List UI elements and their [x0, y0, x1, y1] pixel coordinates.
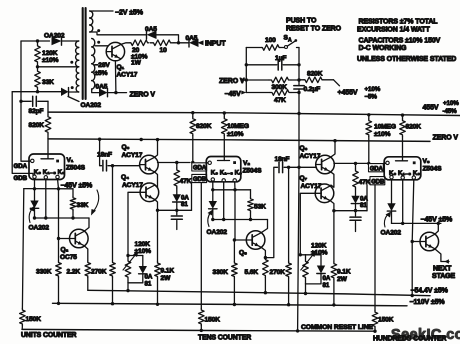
svg-text:150K: 150K — [205, 316, 221, 323]
svg-text:OA202: OA202 — [207, 229, 228, 236]
node K9-h B10 — [411, 294, 414, 297]
transistor Q1 — [106, 42, 124, 60]
wire OA202-u to rail — [34, 208, 36, 218]
pin V2 top — [208, 161, 211, 164]
svg-text:2.2K: 2.2K — [67, 268, 81, 275]
pin V3 dot — [413, 161, 416, 164]
transistor Q5 — [246, 231, 265, 250]
svg-text:270K: 270K — [91, 268, 107, 275]
capacitor 82pF — [21, 100, 31, 102]
node K9 tap — [57, 187, 60, 190]
pin V3 K1-8 — [401, 176, 404, 179]
svg-text:820K: 820K — [406, 124, 422, 131]
wire GDB-h drop — [374, 185, 376, 311]
svg-text:2W: 2W — [161, 275, 172, 282]
svg-text:5.6K: 5.6K — [245, 269, 259, 276]
svg-text:GDA: GDA — [14, 163, 28, 170]
diode 0A5 D4 input — [189, 39, 199, 47]
wire V2 K1-8 drop — [223, 182, 225, 220]
capacitor stub hundreds — [355, 211, 357, 216]
svg-text:Q₅: Q₅ — [239, 249, 247, 256]
resistor 20 1W — [130, 40, 149, 46]
wire 10MEG-h to GDA — [368, 137, 370, 164]
wire Q8 emitter next stage — [435, 249, 449, 262]
svg-text:GDA: GDA — [193, 166, 207, 172]
svg-text:47K: 47K — [359, 179, 371, 186]
svg-text:−54.4V ±5%: −54.4V ±5% — [411, 288, 449, 295]
svg-text:+10%: +10% — [365, 86, 381, 93]
capacitor 0.2uF — [294, 85, 304, 87]
svg-text:150K: 150K — [378, 317, 394, 324]
node top-left corner — [36, 39, 39, 42]
wire OA202 leader — [68, 97, 79, 102]
box GDB hundreds — [370, 177, 385, 185]
wire 270K-t top — [288, 167, 290, 261]
transformer winding upper-left — [76, 41, 79, 48]
resistor 120K-u reset — [125, 256, 131, 283]
svg-text:−45V ±5%: −45V ±5% — [421, 216, 454, 223]
svg-text:ZERO V: ZERO V — [433, 135, 459, 142]
wire Q1 collector — [121, 43, 130, 45]
node zerov Q3 — [156, 138, 159, 141]
node reset-u B10 — [126, 289, 129, 292]
diode 0A5 D5 — [99, 88, 108, 96]
box GDA hundreds — [369, 164, 384, 172]
transistor Q2 — [70, 229, 89, 248]
node reset-t B10 — [304, 292, 307, 295]
pin V3 K9 — [412, 176, 415, 179]
node V2 K0 tap — [211, 188, 214, 191]
resistor 33K units — [72, 189, 74, 197]
transformer phase dot D — [97, 41, 100, 44]
svg-text:820K: 820K — [196, 123, 212, 130]
wire cathode tie tens — [213, 189, 251, 191]
node 1uF left — [245, 63, 248, 66]
wire Q8 collector — [435, 223, 439, 234]
transistor Q8 next stage — [420, 232, 439, 251]
svg-text:RESISTORS ±7% TOTAL: RESISTORS ±7% TOTAL — [359, 19, 439, 26]
diode OA202 hundreds — [387, 203, 395, 211]
node input — [177, 41, 180, 44]
wire reset-u bottom — [128, 282, 143, 284]
svg-text:Q₇: Q₇ — [300, 175, 308, 182]
resistor 820K top — [299, 79, 304, 81]
wire V3 K1-8 drop — [402, 180, 404, 224]
resistor 270K tens — [286, 262, 292, 279]
wire GDA-t — [158, 162, 191, 164]
resistor 10MEG hundreds — [368, 115, 370, 119]
svg-text:ACY17: ACY17 — [122, 182, 143, 189]
wire V2 K9 drop — [235, 182, 246, 240]
wire 150K-u feed — [22, 189, 23, 309]
switch SA — [280, 47, 285, 49]
svg-text:10MEG: 10MEG — [227, 123, 249, 130]
svg-text:81: 81 — [181, 201, 188, 208]
svg-text:COMMON RESET LINE: COMMON RESET LINE — [301, 324, 374, 331]
svg-text:GDA: GDA — [370, 166, 384, 172]
wire 330K-u bottom — [58, 278, 60, 304]
wire reset-t drop — [305, 284, 307, 294]
svg-text:82pF: 82pF — [29, 108, 44, 115]
node 330K-t top — [233, 238, 236, 241]
resistor 10MEG tens — [223, 113, 225, 117]
resistor 33K upper — [35, 67, 41, 92]
svg-text:D-C WORKING: D-C WORKING — [359, 45, 408, 52]
wire -54.4V bus — [88, 290, 430, 295]
node K9-h base — [411, 240, 414, 243]
wire 150K-t to B12 — [200, 326, 202, 331]
node 82pF tap — [19, 100, 22, 103]
node Q1 emitter — [114, 91, 117, 94]
wire Q5 collector — [261, 220, 268, 233]
wire V3 anode bar — [396, 160, 408, 162]
node zerov 141 — [140, 138, 143, 141]
svg-text:18nF: 18nF — [275, 156, 290, 163]
svg-text:−45V: −45V — [225, 91, 242, 98]
node K9-t tap — [233, 188, 236, 191]
capacitor stub units-chain — [176, 210, 178, 215]
svg-text:0A5: 0A5 — [96, 84, 108, 91]
wire Q6-Q7 link — [330, 172, 334, 188]
svg-text:UNITS COUNTER: UNITS COUNTER — [21, 332, 76, 339]
svg-text:ACY17: ACY17 — [300, 153, 321, 160]
wire mid tap — [38, 66, 77, 68]
wire V1 K1-8 drop — [45, 179, 47, 218]
pin V2 K1-8 — [222, 179, 225, 182]
wire 455V bus — [48, 112, 460, 115]
svg-text:NEXT: NEXT — [433, 265, 452, 272]
transformer winding lower-right — [92, 39, 95, 47]
transistor Q4 — [140, 183, 159, 202]
node bus reset — [297, 112, 300, 115]
node zerov Q6 — [333, 139, 336, 142]
svg-text:ZERO V: ZERO V — [219, 78, 245, 85]
svg-text:PUSH TO: PUSH TO — [286, 17, 317, 24]
node 18nF-270K — [111, 164, 114, 167]
wire 150K-h to B12 — [374, 328, 376, 331]
node 150K-t B12 — [200, 329, 203, 332]
svg-text:0A5: 0A5 — [186, 35, 198, 42]
node 150K-h B12 — [373, 330, 376, 333]
tube V1 — [29, 154, 65, 180]
svg-text:330K: 330K — [36, 268, 52, 275]
svg-text:455V: 455V — [423, 105, 439, 112]
pin V2 K9 — [233, 179, 236, 182]
transistor Q3 — [140, 155, 159, 174]
svg-text:81: 81 — [360, 202, 367, 209]
box GDA tens — [192, 163, 207, 171]
wire V3 K0 drop — [391, 179, 393, 203]
transformer phase dot C — [97, 29, 100, 32]
wire Q4 emitter — [155, 200, 158, 211]
svg-text:RESET TO ZERO: RESET TO ZERO — [286, 26, 342, 33]
transformer phase dot A — [70, 61, 73, 64]
resistor 47K tens — [176, 163, 178, 169]
wire -2V — [94, 10, 114, 12]
wire 270K-t bottom — [288, 278, 290, 305]
svg-text:33K: 33K — [77, 202, 89, 209]
svg-text:+10%: +10% — [443, 100, 459, 107]
wire V3 K9 drop — [412, 180, 420, 242]
pin V1 top — [31, 159, 34, 162]
svg-text:81: 81 — [323, 282, 330, 289]
node K18-h rail — [401, 222, 404, 225]
box GDB tens — [192, 174, 207, 182]
svg-text:EXCURSION 1/4 WATT: EXCURSION 1/4 WATT — [357, 27, 431, 34]
diode OA81 hundreds — [355, 189, 357, 196]
wire V1 K0 drop — [34, 179, 36, 201]
svg-text:47K: 47K — [180, 178, 192, 185]
pin V1 K9 — [56, 175, 59, 178]
wire 9.1K-u bottom — [157, 278, 159, 304]
svg-text:ACY17: ACY17 — [301, 183, 322, 190]
wire tens mid — [158, 209, 192, 211]
svg-text:−28V: −28V — [95, 62, 111, 69]
diode 0A5 D3 — [147, 31, 157, 39]
svg-text:330K: 330K — [213, 269, 229, 276]
capacitor 1uF — [246, 64, 276, 66]
svg-text:K₀ K₁₋₈ K₉: K₀ K₁₋₈ K₉ — [34, 169, 65, 176]
pin V3 top — [386, 161, 389, 164]
wire upper-right bottom — [90, 32, 147, 35]
wire reset-u arrow — [123, 254, 137, 271]
node 18nF-reset — [297, 166, 300, 169]
svg-text:Z504S: Z504S — [423, 165, 443, 172]
svg-text:−45V ±5%: −45V ±5% — [61, 182, 94, 189]
wire Q4 base drop — [128, 192, 141, 255]
diode OA202 D1 — [52, 37, 62, 45]
transformer winding lower-left — [76, 67, 79, 73]
svg-text:1W: 1W — [131, 60, 142, 67]
wire 820K-h to anode — [402, 137, 404, 161]
node bus 820K-h — [401, 113, 404, 116]
pin V1 dot — [56, 160, 59, 163]
svg-text:2W: 2W — [337, 276, 348, 283]
resistor 9.1K units — [157, 210, 159, 261]
wire V1 K9 drop — [58, 179, 70, 239]
wire -45V-u arrow — [93, 190, 99, 213]
node K18 rail — [44, 216, 47, 219]
svg-text:INPUT: INPUT — [205, 41, 226, 48]
svg-text:±5%: ±5% — [95, 70, 108, 77]
resistor 120K upper — [35, 41, 41, 67]
svg-text:ACY17: ACY17 — [117, 72, 138, 79]
resistor 300K — [246, 79, 269, 81]
capacitor 18nF units — [100, 139, 102, 166]
wire Q5 emitter — [261, 247, 265, 257]
svg-text:Q₁: Q₁ — [117, 64, 125, 71]
svg-text:0A5: 0A5 — [145, 26, 157, 33]
svg-text:ZERO V: ZERO V — [130, 92, 156, 99]
node 18nF-270Kt — [287, 166, 290, 169]
resistor 820K units — [45, 115, 51, 134]
transistor Q6 — [316, 155, 335, 174]
resistor 820K hundreds — [402, 115, 404, 119]
wire Q1 emitter — [114, 61, 117, 93]
diode OA81 tens — [176, 188, 178, 194]
svg-text:K₀ K₁₋₈ K₉: K₀ K₁₋₈ K₉ — [389, 170, 420, 177]
transformer phase dot B — [71, 86, 74, 89]
node zerov 82pf-chain — [98, 138, 101, 141]
svg-text:Q₂: Q₂ — [61, 247, 69, 254]
wire reset-t arrow — [301, 254, 314, 271]
diode OA81 units — [142, 256, 144, 267]
wire K9-h down — [411, 242, 413, 296]
diode OA202 tens — [209, 201, 217, 209]
wire 150K-u to reset bus — [21, 326, 23, 330]
wire reset vertical down — [298, 89, 299, 331]
wire GDA-h — [334, 162, 367, 164]
svg-text:33K: 33K — [42, 79, 54, 86]
wire reset rail left — [245, 48, 247, 93]
node reset-t top — [299, 253, 302, 256]
node 9.1K-u B11 — [156, 303, 159, 306]
svg-text:−2V ±5%: −2V ±5% — [115, 9, 144, 16]
diode OA202 D2 — [61, 88, 69, 96]
tube V2 — [206, 157, 241, 182]
svg-text:9.1K: 9.1K — [161, 268, 175, 275]
resistor 150K tens — [199, 309, 205, 326]
resistor 9.1K tens — [333, 211, 335, 262]
wire 330K-t top — [233, 240, 235, 262]
wire 9.1K-t bottom — [333, 280, 335, 305]
node Q7 junction — [332, 209, 335, 212]
pin V2 dot — [233, 161, 236, 164]
wire zerov bus — [48, 139, 430, 142]
svg-text:V₃: V₃ — [423, 158, 430, 165]
tube V3 — [384, 157, 421, 180]
svg-text:120K: 120K — [42, 50, 58, 57]
svg-text:V₁: V₁ — [67, 157, 74, 164]
svg-text:53K: 53K — [254, 203, 266, 210]
node Q4 junction — [156, 209, 159, 212]
node GDA-h 47K — [354, 162, 357, 165]
wire Q2 collector — [84, 218, 89, 231]
wire 33K bottom — [12, 91, 61, 93]
svg-text:OA202: OA202 — [381, 229, 402, 236]
transistor Q7 — [315, 184, 334, 203]
wire reset-u drop — [127, 283, 129, 291]
pin V1 K1-8 — [44, 176, 47, 179]
svg-text:300K: 300K — [272, 84, 288, 91]
svg-text:±10%: ±10% — [227, 131, 244, 138]
svg-text:OA202: OA202 — [44, 33, 65, 40]
node 53K bottom — [249, 218, 252, 221]
node K0 tap — [33, 187, 36, 190]
wire input elbow — [157, 35, 179, 43]
wire OA202-h to rail — [391, 211, 393, 223]
node 33K bottom — [36, 90, 39, 93]
svg-text:81: 81 — [145, 280, 152, 287]
node 33K-u bottom — [71, 216, 74, 219]
wire 330K-u top — [58, 239, 60, 262]
wire 2.2K-u bottom — [87, 278, 89, 291]
wire zero-v stub — [108, 92, 127, 94]
wire Q6 collector — [330, 141, 335, 158]
diode OA202 units — [30, 201, 38, 209]
svg-text:-45%: -45% — [443, 108, 458, 115]
svg-text:9.1K: 9.1K — [337, 269, 351, 276]
wire GDA-V1 vertical — [21, 41, 30, 161]
svg-text:10: 10 — [160, 47, 168, 54]
node crl bottom — [296, 329, 299, 332]
wire 5.6K-t bottom — [264, 278, 266, 293]
wire -110V bus — [53, 303, 408, 306]
node 330K-u B11 — [57, 302, 60, 305]
node 1uF right — [297, 63, 300, 66]
pin V2 K0 — [211, 178, 214, 181]
svg-text:UNLESS OTHERWISE STATED: UNLESS OTHERWISE STATED — [357, 56, 456, 63]
svg-text:Q₃: Q₃ — [122, 144, 130, 151]
wire Q7 base drop — [300, 193, 316, 255]
wire Q2 emitter — [84, 246, 88, 261]
node 47K right — [297, 91, 300, 94]
svg-text:CAPACITORS ±10% 150V: CAPACITORS ±10% 150V — [359, 38, 441, 45]
svg-text:±10%: ±10% — [374, 131, 391, 138]
node GDA-h 10MEG — [367, 162, 370, 165]
wire Q3-Q4 link — [154, 172, 157, 188]
wire 330K-t bottom — [233, 278, 235, 305]
resistor 5.6K tens — [263, 258, 269, 278]
wire Q7 emitter — [330, 201, 334, 211]
node 270K-u B11 — [111, 302, 114, 305]
wire 820K to anode — [47, 134, 49, 159]
svg-text:STAGE: STAGE — [432, 273, 456, 280]
node 330K-t B11 — [233, 303, 236, 306]
node mid tap — [36, 65, 39, 68]
wire switch down — [298, 48, 300, 86]
svg-text:1μF: 1μF — [275, 55, 287, 62]
svg-text:−5%: −5% — [365, 94, 378, 101]
svg-text:820K: 820K — [29, 122, 45, 129]
svg-text:820K: 820K — [307, 70, 323, 77]
node 270K-t B11 — [287, 303, 290, 306]
node 5.6K B10 — [264, 291, 267, 294]
capacitor 18nF tens — [265, 167, 277, 257]
svg-text:270K: 270K — [270, 269, 286, 276]
node bus 10MEG-h — [367, 113, 370, 116]
node Q8 collector — [437, 222, 440, 225]
svg-text:GDB: GDB — [193, 177, 207, 183]
diode OA81 tens-reset — [320, 255, 322, 266]
resistor 2.2K units — [85, 261, 91, 278]
svg-text:OA202: OA202 — [29, 224, 50, 231]
transformer lower-right bottom lead — [92, 89, 99, 93]
wire 10MEG-t to anode — [223, 136, 225, 161]
node OA81-h bottom — [354, 209, 357, 212]
svg-text:Q₄: Q₄ — [121, 174, 129, 181]
resistor 270K units — [110, 261, 116, 278]
svg-text:ACY17: ACY17 — [122, 152, 143, 159]
node reset-u top — [126, 254, 129, 257]
resistor 53K tens — [250, 190, 252, 198]
wire 270K-u bottom — [112, 278, 114, 304]
pin V1 K0 — [33, 175, 36, 178]
resistor 150K hundreds — [372, 311, 378, 329]
node GDA-t 47K — [175, 161, 178, 164]
transformer core — [82, 8, 84, 99]
wire V1 anode bar — [41, 158, 54, 160]
resistor 330K tens — [232, 262, 238, 279]
svg-text:100: 100 — [265, 37, 276, 44]
wire reset-t bottom — [306, 283, 322, 285]
wire V2 K0 drop — [212, 181, 214, 201]
svg-text:Q₆: Q₆ — [300, 145, 308, 152]
wire 82pF to bus — [47, 101, 49, 115]
svg-text:10MEG: 10MEG — [374, 124, 396, 131]
resistor 100 — [246, 47, 261, 49]
wire Q1 base — [95, 45, 108, 47]
